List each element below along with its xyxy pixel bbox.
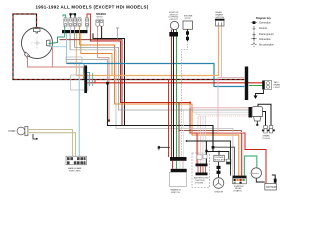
svg-text:STATOR: STATOR: [215, 191, 224, 194]
svg-text:CIRCUIT: CIRCUIT: [170, 19, 179, 21]
svg-text:No connection: No connection: [259, 44, 274, 47]
svg-text:PLUGS: PLUGS: [263, 138, 271, 140]
svg-text:HORN: HORN: [9, 131, 16, 133]
svg-text:Connection: Connection: [259, 38, 271, 41]
svg-text:BATTERY: BATTERY: [266, 186, 277, 189]
svg-text:REGULATOR: REGULATOR: [214, 158, 226, 161]
svg-text:SWITCH: SWITCH: [171, 192, 180, 194]
svg-text:Starter: Starter: [252, 172, 259, 175]
svg-text:1991-1992 ALL MODELS (EXCEPT H: 1991-1992 ALL MODELS (EXCEPT HDI MODELS): [36, 5, 149, 10]
svg-text:Diagram key: Diagram key: [256, 17, 271, 20]
svg-text:SYSTEM: SYSTEM: [195, 182, 204, 184]
svg-text:Frame ground: Frame ground: [259, 33, 274, 36]
svg-text:LIGHT: LIGHT: [274, 87, 281, 89]
svg-text:SWITCHES: SWITCHES: [69, 171, 81, 173]
svg-text:Connection: Connection: [259, 22, 271, 25]
svg-text:STOP: STOP: [185, 18, 191, 20]
svg-text:Ground: Ground: [259, 27, 267, 30]
svg-text:METER: METER: [97, 16, 104, 18]
svg-text:(START): (START): [234, 190, 242, 193]
